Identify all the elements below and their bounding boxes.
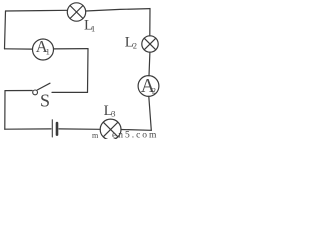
- wire top-left horizontal: [6, 9, 68, 12]
- switch blade: [37, 83, 50, 90]
- battery cell short plate: [56, 123, 59, 135]
- wire middle vertical: [87, 49, 90, 93]
- wire switch-row left: [5, 90, 32, 92]
- battery cell long plate: [51, 120, 53, 137]
- svg-text:S: S: [40, 91, 50, 111]
- ammeter A1: [33, 39, 54, 60]
- wire right vertical middle: [148, 52, 151, 76]
- wire A1-row right: [54, 48, 88, 50]
- ammeter A2: [138, 76, 159, 97]
- wire A1-row left: [5, 48, 33, 50]
- lamp L3: [100, 119, 121, 140]
- lamp L1: [67, 3, 85, 21]
- svg-text:1: 1: [91, 24, 95, 34]
- svg-text:2: 2: [152, 86, 156, 96]
- switch pivot circle: [33, 90, 38, 95]
- svg-text:2: 2: [133, 41, 137, 51]
- wire right vertical upper: [149, 9, 151, 36]
- svg-text:3: 3: [111, 109, 115, 119]
- lamp L2: [142, 36, 158, 52]
- wire left vertical upper: [5, 11, 6, 49]
- wire switch-row right: [52, 91, 88, 93]
- wire top-right horizontal: [86, 9, 150, 11]
- wire bottom-middle horizontal: [59, 128, 100, 130]
- wire bottom-left horizontal: [5, 128, 51, 130]
- wire bottom-right horizontal: [121, 129, 151, 132]
- wire left vertical lower: [4, 91, 6, 130]
- svg-text:en5.com: en5.com: [112, 131, 158, 139]
- svg-text:m: m: [92, 131, 99, 139]
- svg-text:1: 1: [46, 46, 50, 56]
- wire right vertical lower: [149, 96, 152, 130]
